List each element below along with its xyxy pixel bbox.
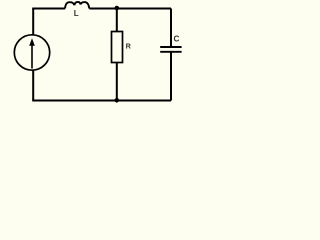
current source arrow xyxy=(31,45,33,69)
capacitor C1 top plate xyxy=(160,46,181,48)
wire: top left horizontal (source top to inductor) xyxy=(32,8,65,10)
capacitor C1 bottom plate xyxy=(160,51,181,53)
inductor L1 coil xyxy=(65,2,89,9)
resistor R1 body xyxy=(112,32,123,63)
wire: left vertical lower (source to bottom wire) xyxy=(32,70,34,101)
wire: top horizontal (inductor to right corner) xyxy=(89,8,171,10)
svg-text:R: R xyxy=(126,42,132,51)
wire: capacitor branch lower xyxy=(170,52,172,101)
wire: bottom horizontal xyxy=(32,100,171,102)
svg-text:C: C xyxy=(174,34,180,43)
wire: capacitor branch upper xyxy=(170,9,172,48)
wire: resistor branch lower xyxy=(116,63,118,101)
wire: left vertical upper (source to top wire) xyxy=(32,9,34,36)
current source I1 circle xyxy=(14,35,49,70)
wire: resistor branch upper xyxy=(116,9,118,32)
node: bottom junction dot xyxy=(115,98,120,103)
node: top junction dot xyxy=(115,6,120,11)
svg-text:L: L xyxy=(74,9,79,18)
